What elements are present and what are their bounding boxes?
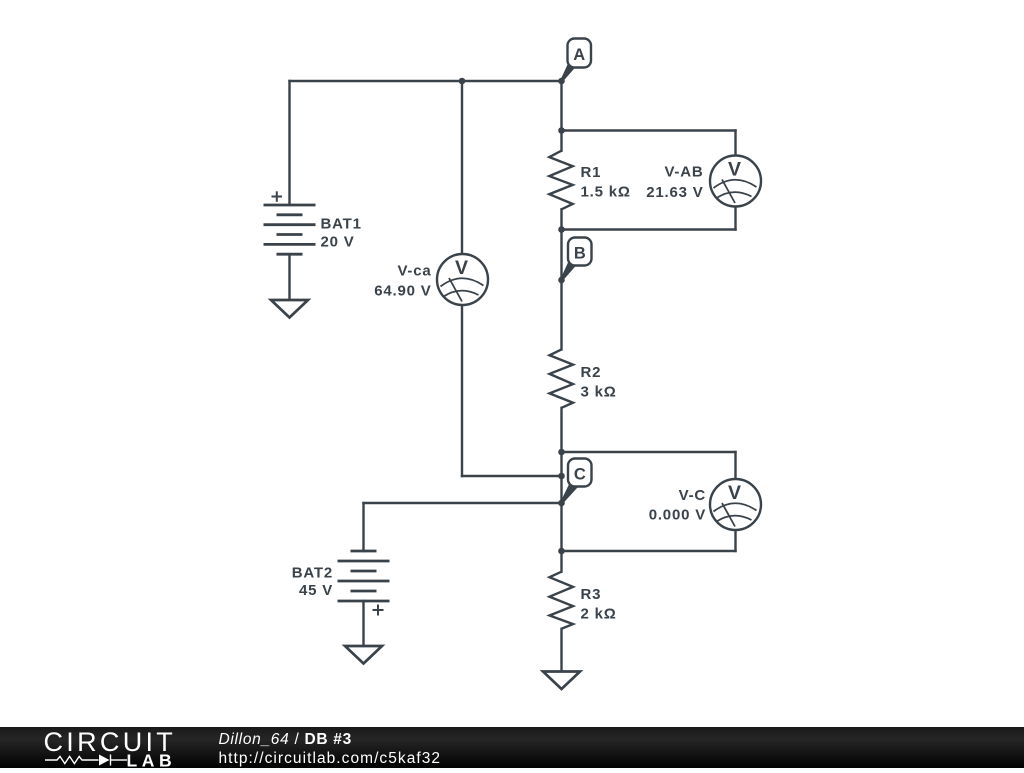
svg-text:V-C: V-C: [679, 487, 706, 504]
svg-text:http://circuitlab.com/c5kaf32: http://circuitlab.com/c5kaf32: [219, 750, 442, 767]
svg-text:R1: R1: [581, 164, 602, 181]
wire V-AB top horizontal: [562, 129, 736, 131]
wire top horizontal BAT1 to node A: [290, 80, 562, 82]
wire V-C bottom horizontal: [562, 550, 736, 552]
svg-text:3 kΩ: 3 kΩ: [581, 384, 617, 401]
resistor R3: [550, 572, 574, 629]
wire V-AB right vertical bottom: [734, 206, 736, 230]
svg-text:LAB: LAB: [127, 751, 177, 769]
svg-text:R2: R2: [581, 364, 602, 381]
junction dot R1 bottom / V-AB tap: [558, 226, 565, 233]
wire R3 bottom lead: [560, 629, 562, 670]
node B label flag: [560, 238, 591, 281]
wire R1 top lead: [560, 131, 562, 151]
wire V-ca top lead: [461, 81, 463, 255]
svg-text:BAT1: BAT1: [321, 216, 362, 233]
junction dot V-ca tap on top wire: [459, 78, 466, 85]
node C junction dot BAT2 tap: [558, 500, 565, 507]
wire BAT2 top vertical: [362, 503, 364, 551]
svg-text:V-AB: V-AB: [664, 164, 703, 181]
svg-text:0.000 V: 0.000 V: [649, 507, 706, 524]
voltmeter V-C: [710, 479, 761, 530]
svg-text:V-ca: V-ca: [397, 263, 431, 280]
battery BAT1 plus sign: [272, 191, 283, 202]
wire node B segment: [560, 230, 562, 350]
svg-text:V: V: [728, 159, 741, 181]
svg-text:21.63 V: 21.63 V: [646, 184, 703, 201]
wire BAT1 top lead vertical: [288, 81, 290, 205]
wire node C main segment: [560, 452, 562, 551]
wire V-AB bottom horizontal: [562, 228, 736, 230]
wire V-C right vertical bottom: [734, 530, 736, 552]
wire V-C right vertical top: [734, 452, 736, 480]
svg-text:45 V: 45 V: [299, 582, 333, 599]
junction dot V-C bottom tap: [558, 548, 565, 555]
svg-text:V: V: [455, 257, 468, 279]
voltmeter V-AB: [710, 156, 761, 207]
wire V-ca bottom lead vertical: [461, 305, 463, 477]
voltmeter V-ca: [437, 254, 488, 305]
CircuitLab logo resistor-diode symbol: [45, 755, 127, 766]
wire BAT1 bottom lead: [288, 254, 290, 299]
svg-text:64.90 V: 64.90 V: [374, 283, 431, 300]
wire BAT2 top horizontal: [364, 502, 562, 504]
junction dot node C / V-C tap: [558, 449, 565, 456]
node C label flag: [560, 459, 591, 504]
svg-text:1.5 kΩ: 1.5 kΩ: [581, 184, 631, 201]
svg-text:A: A: [573, 46, 585, 64]
wire BAT2 bottom lead: [362, 601, 364, 645]
junction dot V-ca bottom tap: [558, 473, 565, 480]
svg-text:V: V: [728, 482, 741, 504]
wire R3 top lead: [560, 551, 562, 572]
node A label flag: [560, 39, 591, 82]
ground below BAT2: [345, 646, 382, 664]
svg-text:B: B: [574, 245, 586, 263]
svg-text:Dillon_64 / DB #3: Dillon_64 / DB #3: [219, 731, 352, 748]
wire V-ca bottom horizontal to node C: [462, 475, 562, 477]
wire R1 bottom lead: [560, 209, 562, 229]
ground below BAT1: [271, 300, 308, 318]
wire V-C top horizontal: [562, 451, 736, 453]
battery BAT1: [264, 205, 316, 254]
svg-text:20 V: 20 V: [321, 234, 355, 251]
wire R2 bottom lead: [560, 408, 562, 452]
resistor R1: [549, 151, 572, 210]
resistor R2: [550, 349, 574, 407]
battery BAT2 plus sign: [373, 605, 384, 616]
wire V-AB right vertical top: [734, 131, 736, 157]
wire node A stem down: [560, 81, 562, 131]
node A junction dot: [558, 78, 565, 85]
battery BAT2: [338, 551, 390, 601]
svg-text:R3: R3: [581, 586, 602, 603]
svg-text:BAT2: BAT2: [292, 565, 333, 582]
svg-text:2 kΩ: 2 kΩ: [581, 606, 617, 623]
node B junction dot: [558, 277, 565, 284]
footer bar background: [0, 727, 1024, 768]
junction dot R1 top / V-AB tap: [558, 127, 565, 134]
ground below R3: [543, 672, 580, 690]
svg-text:C: C: [574, 466, 586, 484]
